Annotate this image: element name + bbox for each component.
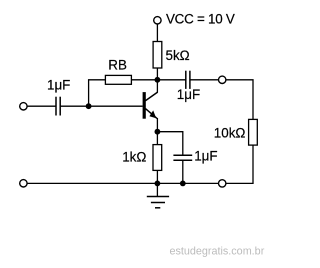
node base junction: [86, 103, 92, 109]
capacitor C2 1uF output coupling: [186, 71, 190, 89]
wire C3 to ground node 2: [182, 160, 184, 183]
wire R1 to collector node: [156, 68, 158, 80]
resistor R1 5k: [153, 42, 162, 69]
svg-text:1kΩ: 1kΩ: [122, 150, 146, 165]
svg-text:1μF: 1μF: [177, 87, 200, 102]
wire collector node to C2: [157, 79, 185, 81]
ground: [147, 183, 169, 207]
node collector junction: [155, 77, 161, 83]
transistor Q1 NPN: [144, 92, 157, 119]
wire bottom rail: [27, 182, 218, 184]
capacitor C3 1uF emitter bypass: [173, 155, 192, 160]
terminal output bottom: [219, 180, 226, 187]
resistor RB: [105, 75, 131, 84]
svg-text:1μF: 1μF: [47, 78, 70, 93]
wire collector node to RB: [131, 79, 157, 81]
svg-text:5kΩ: 5kΩ: [166, 48, 190, 63]
wire R2 to ground node: [156, 170, 158, 183]
wire C2 to output terminal: [190, 79, 218, 81]
resistor R2 1k: [153, 145, 162, 171]
svg-text:10kΩ: 10kΩ: [214, 125, 246, 140]
terminal input: [20, 103, 27, 110]
svg-text:1μF: 1μF: [194, 149, 217, 164]
capacitor C1 1uF input coupling: [56, 97, 60, 116]
resistor R3 10k load: [249, 119, 258, 145]
svg-text:RB: RB: [108, 57, 127, 72]
wire input terminal to C1: [27, 105, 56, 107]
terminal output top: [219, 76, 226, 83]
wire collector of Q1 to node: [156, 80, 158, 93]
wire output terminal to R3: [226, 80, 253, 120]
wire RB to base node: [89, 80, 106, 106]
wire emitter node to R2: [156, 132, 158, 145]
terminal input bottom: [20, 180, 27, 187]
wire emitter node to C3: [157, 132, 182, 156]
wire emitter of Q1 to emitter node: [156, 118, 158, 132]
terminal VCC: [154, 17, 161, 24]
wire C1 to base of Q1: [60, 105, 142, 107]
wire R3 to bottom terminal: [226, 145, 253, 183]
svg-text:VCC = 10 V: VCC = 10 V: [166, 12, 235, 27]
node ground junction 1: [155, 181, 161, 187]
node emitter junction: [155, 129, 161, 135]
node ground junction 2: [180, 181, 186, 187]
wire VCC terminal to R1: [156, 24, 158, 41]
svg-text:estudegratis.com.br: estudegratis.com.br: [169, 246, 264, 258]
